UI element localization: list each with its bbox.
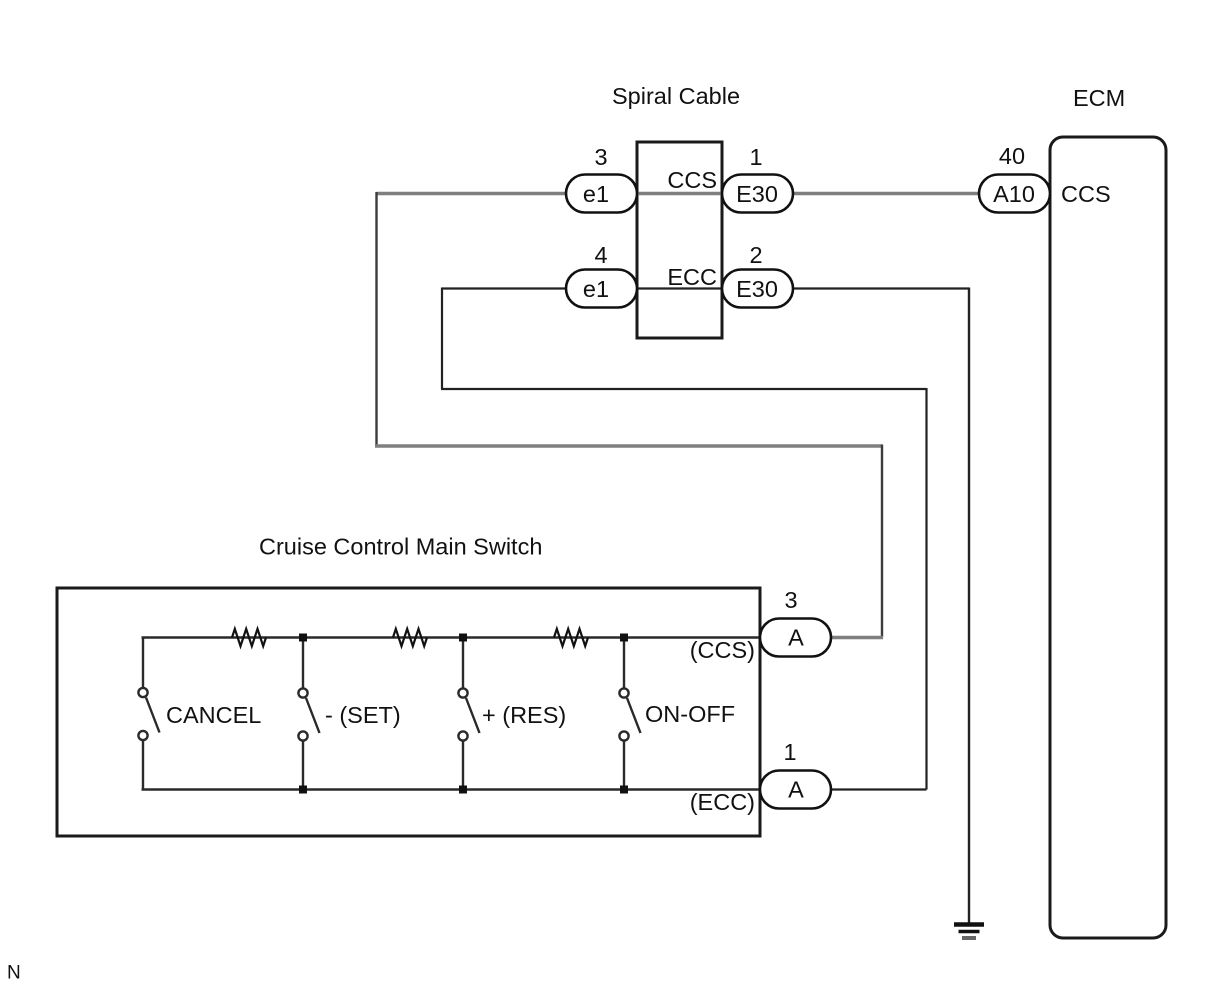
svg-text:N: N (7, 963, 21, 984)
ground symbol (954, 925, 984, 939)
wire E30 pin2 to ground vertical (793, 287, 969, 289)
resistor R2 (393, 629, 427, 646)
svg-text:1: 1 (783, 739, 796, 765)
svg-text:ECC: ECC (667, 264, 717, 290)
svg-text:ECM: ECM (1073, 85, 1125, 111)
connector E30 pin2 (722, 270, 793, 308)
ECM box U1 (1050, 137, 1166, 938)
svg-text:E30: E30 (736, 276, 778, 302)
resistor R3 (554, 629, 588, 646)
svg-text:CANCEL: CANCEL (166, 702, 261, 728)
svg-text:2: 2 (749, 242, 762, 268)
switch S1 CANCEL (138, 637, 159, 791)
connector E30 pin1 (722, 175, 793, 213)
resistor R1 (232, 629, 266, 646)
svg-text:3: 3 (784, 587, 797, 613)
svg-text:Spiral Cable: Spiral Cable (612, 83, 740, 109)
connector e1 pin3 (566, 175, 637, 213)
svg-text:e1: e1 (583, 276, 609, 302)
junction dot top x624 (620, 634, 628, 642)
switch S3 +(RES) (458, 638, 479, 790)
connector A10 pin40 (979, 175, 1050, 213)
svg-text:40: 40 (999, 143, 1025, 169)
wire A pin1 to x926 (796, 788, 927, 790)
svg-text:A: A (788, 777, 804, 803)
connector A pin3 (760, 619, 831, 657)
spiral cable box (637, 142, 722, 338)
switch top rail (142, 636, 761, 639)
svg-text:4: 4 (594, 242, 607, 268)
svg-text:A: A (788, 625, 804, 651)
svg-text:ON-OFF: ON-OFF (645, 701, 735, 727)
switch S2 -(SET) (298, 638, 319, 790)
svg-text:+ (RES): + (RES) (482, 702, 566, 728)
wire ground drop at x969 (968, 288, 970, 924)
wire ECC horizontal at y389 (441, 388, 927, 390)
svg-text:e1: e1 (583, 181, 609, 207)
junction dot bottom x463 (459, 786, 467, 794)
svg-text:CCS: CCS (1061, 181, 1111, 207)
switch bottom rail (142, 788, 761, 791)
wire ECC vertical at x926 down to switch A pin1 (925, 388, 927, 790)
wire ECC net: e1 pin4 horizontal (442, 287, 793, 289)
wire A pin3 to x882 (796, 636, 883, 639)
svg-text:(CCS): (CCS) (690, 637, 755, 663)
svg-text:E30: E30 (736, 181, 778, 207)
svg-text:Cruise Control Main Switch: Cruise Control Main Switch (259, 534, 542, 560)
wire ECC vertical at x442 (441, 288, 443, 390)
junction dot bottom x303 (299, 786, 307, 794)
junction dot top x463 (459, 634, 467, 642)
svg-text:(ECC): (ECC) (690, 789, 755, 815)
svg-text:CCS: CCS (667, 167, 717, 193)
junction dot bottom x624 (620, 786, 628, 794)
wire CCS vertical at x376 (375, 192, 377, 446)
wire CCS net: e1 pin3 to A10 horizontal (377, 192, 1006, 195)
junction dot top x303 (299, 634, 307, 642)
wire CCS vertical at x882 down to switch A pin3 (881, 445, 883, 638)
svg-text:- (SET): - (SET) (325, 702, 401, 728)
svg-text:3: 3 (594, 144, 607, 170)
switch S4 ON-OFF (619, 638, 640, 790)
svg-text:A10: A10 (993, 181, 1035, 207)
wire CCS horizontal at y446 (375, 444, 882, 447)
connector e1 pin4 (566, 270, 637, 308)
cruise control main switch box (57, 588, 760, 836)
connector A pin1 (760, 771, 831, 809)
svg-text:1: 1 (749, 144, 762, 170)
